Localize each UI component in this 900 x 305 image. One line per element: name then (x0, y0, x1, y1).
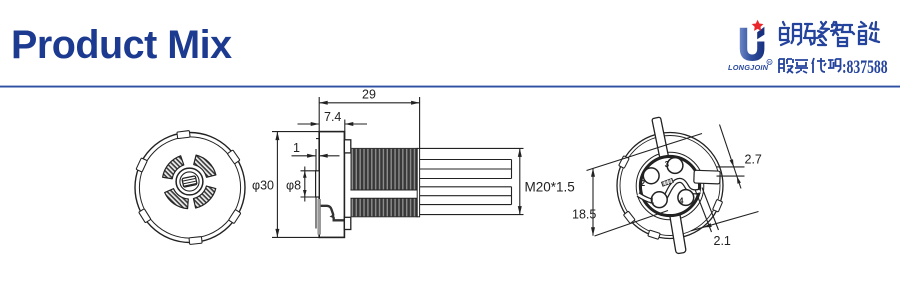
svg-text::837588: :837588 (842, 57, 888, 77)
side view: M20 thread (351, 148, 417, 216)
svg-text:LONGJOIN: LONGJOIN (728, 63, 769, 72)
dim 2.1 (695, 188, 719, 233)
side view: top anti-rotation tab (344, 140, 350, 153)
header underline (0, 86, 900, 88)
svg-text:18.5: 18.5 (572, 208, 596, 222)
svg-text:7.4: 7.4 (324, 110, 341, 124)
svg-text:R: R (768, 60, 771, 65)
logo U mark (740, 27, 765, 61)
right view: shell notches (619, 156, 630, 169)
stock code line 股票代码:837588 (779, 58, 841, 73)
right view: outer shell circle (617, 133, 723, 239)
side view: front boss phi8 (316, 171, 320, 197)
svg-text:2.1: 2.1 (714, 234, 731, 248)
side view: lead wires (420, 159, 512, 161)
side view: thread wire slot gap (350, 190, 417, 198)
left view: center key slot (182, 176, 197, 187)
dim 7.4 (344, 120, 346, 140)
right view: terminal holes 1-4 (667, 158, 683, 174)
left view: front face outer ring (135, 133, 245, 243)
right view: socket ring (640, 156, 699, 215)
side view: bottom anti-rotation tab (344, 217, 350, 229)
svg-text:φ8: φ8 (286, 179, 301, 193)
svg-text:M20*1.5: M20*1.5 (525, 180, 575, 195)
dim 2.7 (720, 125, 742, 189)
side view: gray edge shading (317, 199, 321, 235)
dim 18.5 (587, 134, 703, 237)
left view: ring notches (227, 150, 240, 164)
dim phi8 (301, 171, 316, 197)
dim phi30 (272, 132, 344, 238)
dim M20*1.5 (420, 148, 524, 214)
svg-text:29: 29 (362, 88, 376, 102)
logo Chinese name 朗骏智能 (780, 22, 879, 46)
svg-text:2: 2 (641, 179, 646, 188)
side view: flange body phi30 (319, 132, 344, 238)
logo red star (752, 20, 764, 31)
right view: side wire pad (694, 170, 720, 184)
svg-text:3: 3 (665, 160, 670, 169)
dim 1 (292, 155, 316, 157)
right view: center key (662, 178, 674, 186)
right view: side wire leads (717, 167, 745, 176)
svg-text:φ30: φ30 (252, 179, 274, 193)
side view: thread end cap (417, 148, 419, 216)
side view: snap window profile (321, 206, 345, 220)
left view: four hatched arc pads (194, 155, 216, 177)
right view: top mounting tab (652, 117, 669, 162)
right view: boss circle (636, 152, 704, 220)
svg-text:1: 1 (293, 141, 300, 155)
svg-text:Product Mix: Product Mix (11, 23, 232, 67)
svg-text:4: 4 (679, 197, 684, 206)
right view: bottom mounting tab (669, 209, 686, 254)
dim 29 (319, 97, 419, 148)
right view: S-curve slot (638, 180, 700, 201)
svg-text:1: 1 (650, 197, 655, 206)
left view: center hub circles (176, 168, 203, 195)
svg-text:2.7: 2.7 (745, 153, 762, 167)
